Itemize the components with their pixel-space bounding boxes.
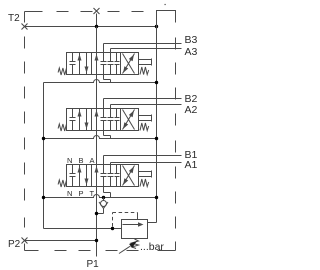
svg-text:A1: A1 <box>185 159 198 171</box>
valve V2 left spring <box>58 124 66 131</box>
node T riser junction <box>95 25 98 28</box>
wire left return rail <box>43 83 45 229</box>
valve V3 right box crossed arrows <box>123 54 135 74</box>
valve V3 left spring <box>58 68 66 75</box>
valve V1 right spring <box>140 179 149 187</box>
relief valve RV1 outlet wire to tank gallery <box>148 222 157 224</box>
port T2 plug cross <box>22 24 28 30</box>
valve V3 center box bypass up arrow <box>95 53 99 75</box>
svg-text:P: P <box>79 189 84 198</box>
wire work port line B3 <box>104 44 182 53</box>
valve V1 right box crossed arrows <box>123 166 135 186</box>
valve V1 lever actuator <box>139 171 152 178</box>
valve V2 center box bypass up arrow <box>95 109 99 131</box>
relief valve RV1 pilot dashed line <box>113 213 138 227</box>
svg-text:T: T <box>90 189 95 198</box>
valve V3 center box blocked stubs <box>101 53 120 75</box>
node tank gallery top junction <box>155 25 158 28</box>
valve V1 left spring <box>58 180 66 187</box>
enclosure dashed border left <box>24 12 26 251</box>
relief valve RV1 body <box>122 220 148 239</box>
svg-text:...bar: ...bar <box>140 241 164 253</box>
svg-text:A2: A2 <box>185 104 198 116</box>
valve V3 left box down arrow <box>85 53 89 75</box>
valve V1 left box up arrow <box>78 165 82 187</box>
directional valve V3 body <box>67 53 139 75</box>
svg-text:A3: A3 <box>185 46 198 58</box>
svg-text:N: N <box>67 189 72 198</box>
wire carryover jog valve V2 <box>104 131 111 139</box>
wire work port line A3 <box>111 49 182 53</box>
enclosure dashed border top <box>25 11 144 13</box>
valve V2 left box blocked stub <box>70 109 76 131</box>
port label A1 <box>185 159 198 171</box>
relief valve RV1 pilot drop <box>137 213 139 220</box>
plugged T outlet riser <box>96 14 98 27</box>
svg-text:P1: P1 <box>87 259 100 270</box>
node rail2 joints <box>42 137 158 140</box>
valve V3 left box up arrow <box>78 53 82 75</box>
port label A3 <box>185 46 198 58</box>
port label A2 <box>185 104 198 116</box>
valve V1 port labels N B A <box>67 156 95 165</box>
wire tank top line T <box>25 26 157 28</box>
wire center riser P/N column <box>96 27 98 257</box>
directional valve V1 body <box>67 165 139 187</box>
svg-text:A: A <box>90 156 95 165</box>
wire bottom feed line <box>44 228 122 230</box>
svg-text:N: N <box>67 156 72 165</box>
enclosure dashed border bottom <box>25 250 176 252</box>
valve V2 right box crossed arrows <box>123 110 135 130</box>
port P1 label <box>87 259 100 270</box>
valve V2 lever actuator <box>139 115 152 122</box>
wire carryover jog valve V3 <box>104 75 111 83</box>
node check valve return junction <box>95 212 98 215</box>
valve V2 left box up arrow <box>78 109 82 131</box>
plugged T outlet cross <box>94 8 100 14</box>
wire carryover jog valve V1 <box>104 187 111 198</box>
valve V2 center box blocked stubs <box>101 109 120 131</box>
valve V3 lever actuator <box>139 59 152 66</box>
wire work port line A1 <box>111 163 182 165</box>
relief valve RV1 spring <box>132 239 139 249</box>
setting label ...bar <box>140 241 164 253</box>
port P2 label <box>8 239 21 250</box>
port label B1 <box>185 149 198 161</box>
wire tank gallery with top hook <box>157 11 176 223</box>
valve V1 center box bypass up arrow <box>95 165 99 187</box>
relief valve RV1 adjustment arrow <box>119 241 137 254</box>
wire section rail 1 (below valve V3) <box>44 80 157 83</box>
node check valve top junction <box>102 196 105 199</box>
node rail1 right joint <box>155 81 158 84</box>
port label B3 <box>185 34 198 46</box>
port label B2 <box>185 93 198 105</box>
node P2 junction <box>95 239 98 242</box>
svg-text:B3: B3 <box>185 34 198 46</box>
check valve C1 <box>97 198 109 214</box>
directional valve V2 body <box>67 109 139 131</box>
valve V1 port labels N P T <box>67 189 95 198</box>
valve V2 right spring <box>140 123 149 131</box>
wire work port line A2 <box>111 105 182 109</box>
port T2 label <box>8 13 20 24</box>
svg-text:B: B <box>79 156 84 165</box>
valve V1 center box blocked stubs <box>101 165 120 187</box>
wire section rail 2 (below valve V2) <box>44 136 157 139</box>
enclosure dashed border right <box>175 38 177 251</box>
svg-text:T2: T2 <box>8 13 20 24</box>
wire work port line B2 <box>104 99 182 109</box>
wire work port line B1 <box>104 156 182 165</box>
relief valve RV1 flow arrow <box>123 222 144 226</box>
valve V2 left box down arrow <box>85 109 89 131</box>
valve V1 left box blocked stub <box>70 165 76 187</box>
node rail3 joints <box>42 196 158 199</box>
tiny mark above border <box>165 4 166 6</box>
port P2 plug cross <box>22 238 28 244</box>
svg-text:P2: P2 <box>8 239 21 250</box>
valve V1 left box down arrow <box>85 165 89 187</box>
valve V3 left box blocked stub <box>70 53 76 75</box>
wire P2 line <box>25 240 97 242</box>
valve V3 right spring <box>140 67 149 75</box>
wire section rail 3 (below valve V1) <box>44 195 157 198</box>
node relief pilot junction <box>111 227 114 230</box>
